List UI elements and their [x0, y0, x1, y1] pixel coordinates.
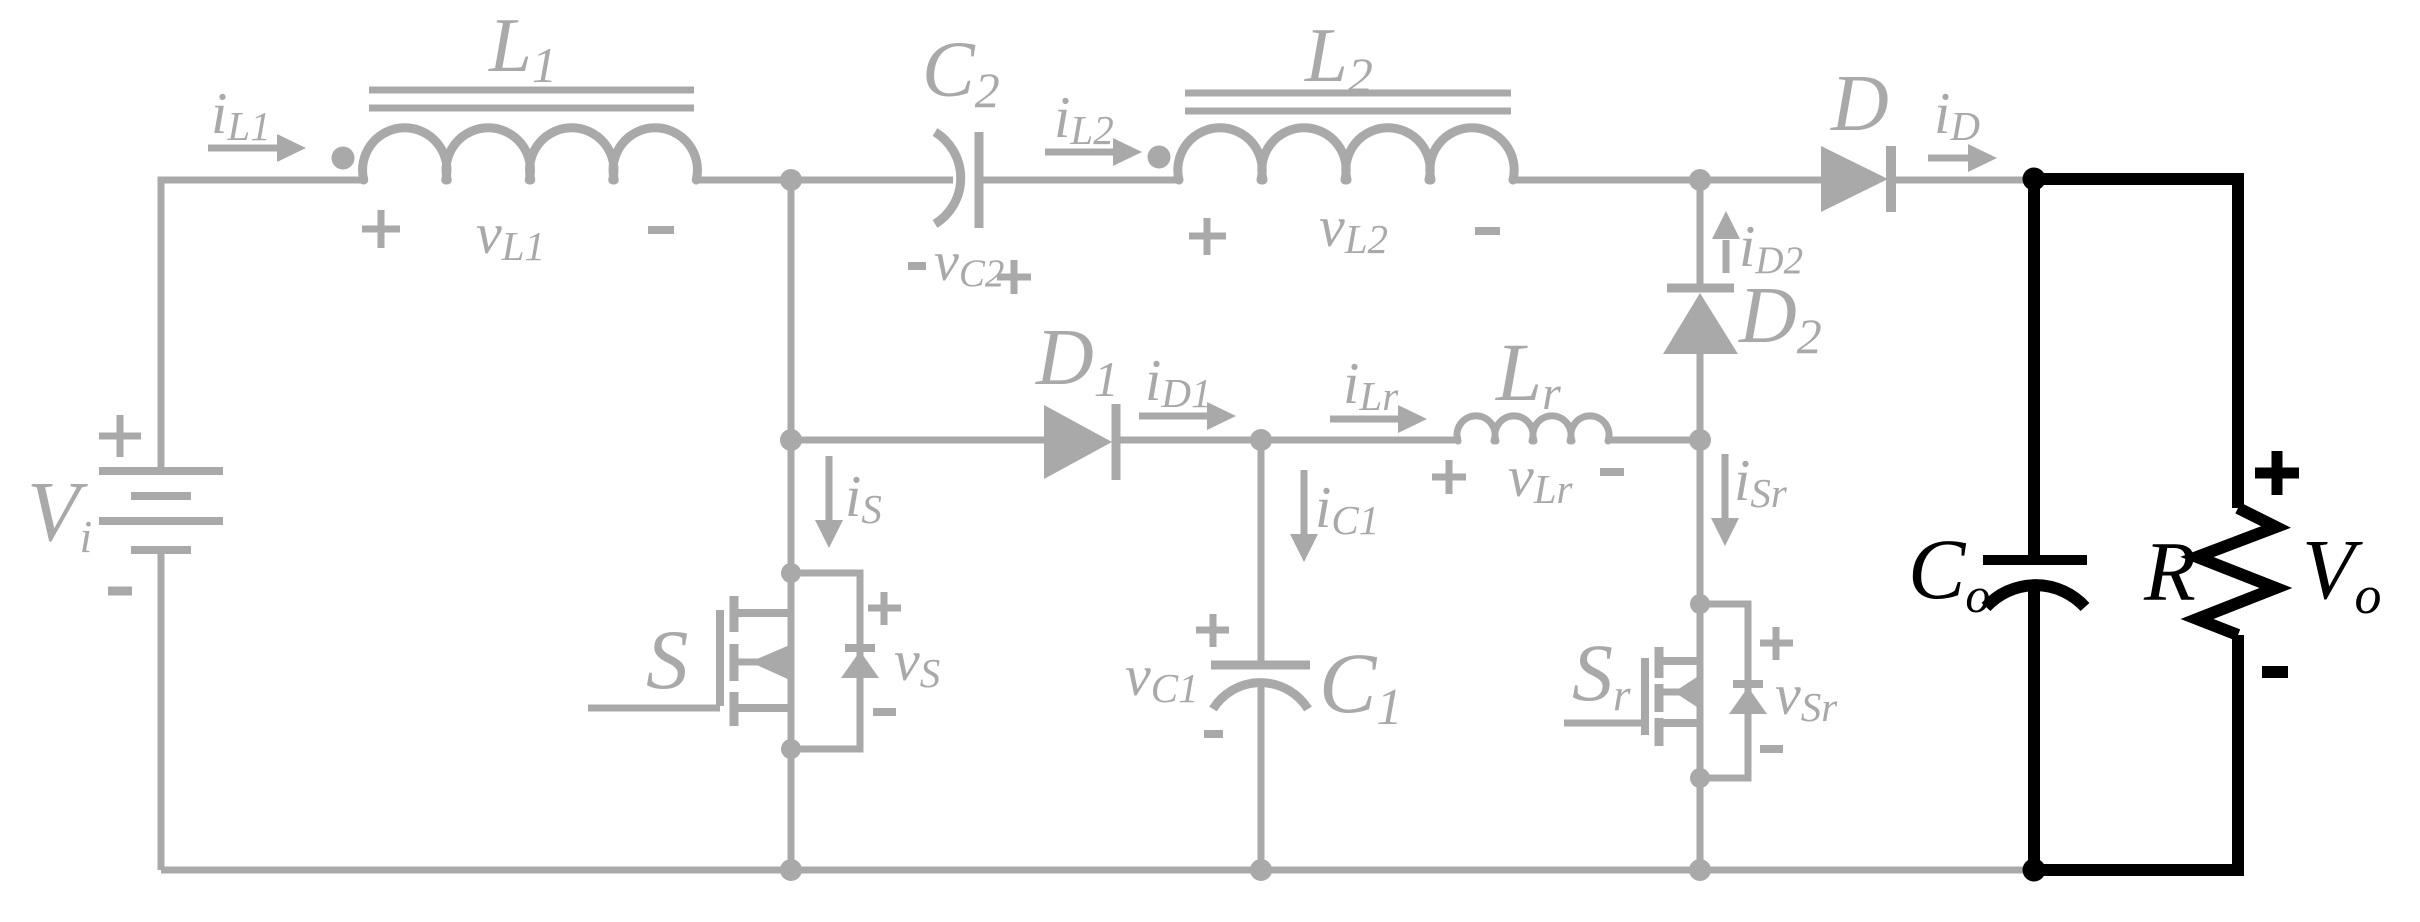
- svg-text:vLr: vLr: [1508, 444, 1574, 512]
- svg-text:iSr: iSr: [1734, 447, 1788, 516]
- arrow iD1: [1139, 413, 1209, 420]
- output black left vertical top: [2028, 179, 2040, 560]
- bottom rail node Sr: [1689, 859, 1711, 881]
- svg-text:C1: C1: [1319, 635, 1402, 736]
- MOSFET S source node: [781, 739, 801, 759]
- arrow iLr: [1330, 416, 1400, 423]
- wire mid rail to D1: [791, 437, 1044, 444]
- svg-text:R: R: [2143, 525, 2196, 619]
- wire L1 to C2: [697, 177, 953, 184]
- inductor L1 coil: [363, 128, 698, 180]
- svg-text:iLr: iLr: [1343, 350, 1399, 419]
- minus vC1: [1204, 730, 1223, 738]
- svg-text:Co: Co: [1908, 521, 1990, 623]
- output node top: [2023, 168, 2046, 191]
- svg-text:D: D: [1830, 60, 1889, 148]
- MOSFET Sr top contact: [1659, 657, 1700, 665]
- MOSFET Sr drain node: [1690, 594, 1710, 614]
- MOSFET S bottom contact: [734, 704, 791, 712]
- capacitor C1 flat plate: [1211, 661, 1310, 670]
- battery Vi: [99, 471, 223, 550]
- plus vLr: [1432, 460, 1466, 494]
- diode D: [1821, 146, 1888, 212]
- MOSFET S main vertical: [788, 440, 795, 870]
- MOSFET S gate bar: [716, 610, 724, 706]
- MOSFET Sr gate bar: [1641, 658, 1649, 735]
- bottom rail node S: [780, 859, 802, 881]
- svg-text:S: S: [646, 613, 689, 707]
- inductor L2 core lines: [1185, 90, 1511, 97]
- MOSFET S drain node: [781, 563, 801, 583]
- wire D2 to mid node: [1697, 354, 1704, 440]
- capacitor C1 curved plate: [1213, 683, 1308, 709]
- plus vSr: [1760, 627, 1793, 660]
- L2 phase dot: [1148, 146, 1171, 169]
- minus Vo: [2262, 666, 2288, 678]
- arrow iSr: [1722, 454, 1729, 520]
- MOSFET S body diode: [845, 644, 875, 652]
- plus vL1: [362, 210, 400, 248]
- battery minus sign: [108, 587, 132, 596]
- wire C1 node to Lr: [1261, 437, 1461, 444]
- MOSFET Sr channel: [1655, 647, 1664, 746]
- svg-text:vSr: vSr: [1775, 662, 1838, 730]
- svg-text:L1: L1: [488, 2, 557, 93]
- svg-text:Vi: Vi: [27, 463, 92, 562]
- svg-text:D2: D2: [1738, 272, 1822, 364]
- minus vSr: [1760, 745, 1783, 753]
- MOSFET Sr body diode: [1733, 680, 1763, 688]
- svg-text:vC1: vC1: [1125, 643, 1199, 711]
- minus vC2: [908, 262, 926, 270]
- output black left vertical bottom: [2028, 584, 2040, 870]
- L1 phase dot: [332, 147, 355, 170]
- arrow iS: [826, 456, 833, 522]
- wire battery bottom to bottom rail: [158, 550, 165, 870]
- inductor L2 coil: [1178, 128, 1514, 180]
- arrow iC1: [1301, 470, 1308, 536]
- diode D1: [1044, 405, 1112, 479]
- arrow iL2: [1045, 149, 1116, 156]
- capacitor Co flat plate: [1983, 555, 2087, 565]
- inductor Lr coil: [1457, 416, 1609, 441]
- bottom rail node C1: [1250, 859, 1272, 881]
- MOSFET Sr main vertical: [1697, 440, 1704, 870]
- minus vLr: [1600, 468, 1624, 476]
- output black right vertical top: [2232, 173, 2244, 508]
- MOSFET S gate lead: [588, 705, 720, 712]
- bottom rail: [161, 867, 2034, 874]
- svg-text:vC2: vC2: [934, 231, 1004, 295]
- arrow iD2: [1723, 240, 1730, 273]
- svg-text:Lr: Lr: [1495, 326, 1561, 420]
- svg-text:iL2: iL2: [1054, 84, 1114, 153]
- MOSFET Sr arrow: [1659, 689, 1680, 696]
- wire left vertical and top-left rail: [161, 180, 363, 471]
- plus vC2: [997, 260, 1031, 294]
- plus vL2: [1189, 218, 1226, 255]
- MOSFET S body diode loop: [791, 573, 860, 749]
- MOSFET Sr gate lead: [1564, 720, 1645, 727]
- wire D to output node: [1896, 177, 2034, 184]
- node top of S branch: [780, 169, 802, 191]
- svg-text:iS: iS: [845, 463, 882, 532]
- svg-text:C2: C2: [922, 27, 1000, 118]
- wire C2 to L2: [983, 177, 1178, 184]
- capacitor C1 top wire: [1258, 440, 1265, 665]
- MOSFET S channel: [730, 596, 739, 726]
- svg-text:Sr: Sr: [1572, 627, 1631, 720]
- svg-text:L2: L2: [1304, 12, 1373, 103]
- minus vS: [873, 708, 896, 716]
- svg-text:vL2: vL2: [1319, 194, 1388, 262]
- wire Lr to mid node right: [1609, 437, 1700, 444]
- mid rail node right: [1689, 429, 1711, 451]
- wire node down to D2: [1697, 180, 1704, 288]
- minus vL1: [648, 226, 674, 234]
- minus vL2: [1475, 227, 1500, 235]
- wire node down to mid rail: [788, 180, 795, 440]
- MOSFET Sr source node: [1690, 768, 1710, 788]
- capacitor C2 curved plate: [935, 132, 961, 224]
- node C1 top: [1250, 429, 1272, 451]
- inductor L1 core lines: [369, 87, 694, 94]
- svg-text:Vo: Vo: [2302, 521, 2382, 625]
- node top D2: [1689, 169, 1711, 191]
- svg-text:iD1: iD1: [1145, 347, 1212, 416]
- output black right vertical bottom: [2232, 635, 2244, 876]
- diode D2: [1667, 284, 1734, 293]
- wire D1 to C1 node: [1120, 437, 1261, 444]
- svg-text:iL1: iL1: [211, 80, 271, 149]
- arrow iL1: [208, 145, 280, 152]
- output node bottom: [2023, 859, 2046, 882]
- plus Vo: [2255, 451, 2299, 495]
- output black bottom line: [2034, 864, 2244, 876]
- plus vC1: [1196, 614, 1229, 647]
- battery plus sign: [99, 415, 141, 457]
- svg-text:vS: vS: [894, 628, 940, 696]
- MOSFET Sr body diode loop: [1700, 604, 1748, 778]
- svg-text:vL1: vL1: [476, 201, 545, 269]
- arrow iD: [1928, 155, 1971, 162]
- plus vS: [868, 592, 901, 625]
- capacitor Co curved plate: [1986, 585, 2085, 607]
- output black top line: [2034, 173, 2244, 185]
- MOSFET Sr bottom contact: [1659, 719, 1700, 727]
- wire L2 to node: [1514, 177, 1821, 184]
- svg-text:D1: D1: [1035, 314, 1119, 407]
- MOSFET S top contact: [734, 609, 791, 617]
- mid rail node left: [780, 429, 802, 451]
- MOSFET S arrow: [734, 659, 758, 666]
- svg-text:iC1: iC1: [1315, 474, 1379, 543]
- svg-text:iD: iD: [1934, 80, 1980, 149]
- capacitor C1 bottom wire: [1258, 682, 1265, 870]
- capacitor C2 straight plate: [975, 132, 984, 228]
- resistor R zigzag: [2197, 508, 2276, 635]
